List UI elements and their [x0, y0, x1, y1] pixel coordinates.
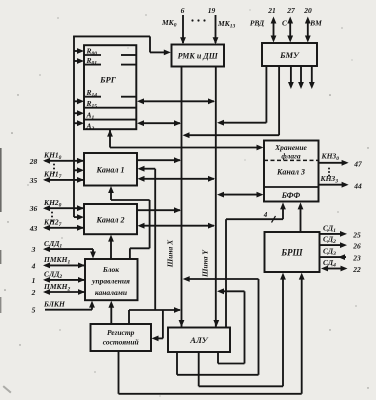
pin 23 СД3 input	[320, 247, 361, 263]
register row A1 label	[86, 111, 95, 122]
wire МК0 into РМК и ДШ	[180, 15, 186, 44]
svg-text:35: 35	[29, 176, 38, 185]
block Регистр состояний	[91, 324, 152, 351]
svg-text:21: 21	[267, 6, 276, 15]
wire Канал 3 to БРГ bottom	[107, 130, 263, 151]
svg-text:1: 1	[32, 276, 36, 285]
register row R14 divider	[84, 96, 136, 98]
svg-text:БФФ: БФФ	[281, 191, 301, 200]
svg-text:Блок: Блок	[102, 265, 119, 274]
label Шина X (rotated)	[166, 239, 175, 268]
svg-text:АЛУ: АЛУ	[189, 335, 209, 345]
wire Регистр состояний to БУК	[108, 301, 114, 324]
wire БМУ short output 1	[288, 66, 294, 89]
block БРШ (bus shaper)	[265, 232, 320, 272]
svg-text:23: 23	[352, 254, 361, 263]
wire stub into Канал 1 right edge	[138, 166, 156, 172]
block Хранение флага / Канал 3 / БФФ	[264, 141, 319, 202]
divider dashed between Хранение флага and Канал 3	[264, 159, 319, 161]
svg-text:6: 6	[181, 6, 185, 15]
wire bus elbow into Канал 2	[74, 214, 84, 220]
dots between МК0 and МК13	[191, 19, 205, 21]
pin 21 label	[267, 6, 276, 15]
wire БМУ short output 3	[309, 66, 315, 89]
svg-text:Шина X: Шина X	[166, 239, 175, 268]
bus Шина X vertical	[179, 66, 185, 327]
label МК0	[161, 18, 177, 29]
svg-text:БРГ: БРГ	[99, 75, 117, 85]
pin 3 СЛД1 output from БУК	[31, 239, 96, 259]
wire Канал 1 to Шина X	[137, 157, 181, 163]
dots between КН1 rows	[53, 164, 55, 174]
pin 4 ПМКН1 bidirectional	[31, 255, 85, 270]
svg-text:состояний: состояний	[103, 338, 139, 347]
wire net horizontal into Шина X	[129, 307, 181, 313]
svg-text:каналами: каналами	[95, 288, 127, 297]
wire БУК to Канал 1 routed	[108, 186, 150, 259]
wire БРГ A2 row to Шина X bidirectional	[137, 120, 181, 126]
label Шина Y (rotated)	[201, 249, 210, 278]
svg-text:25: 25	[352, 230, 361, 239]
svg-text:3: 3	[31, 245, 36, 254]
wire Канал 2 to Шина Y bidirectional	[138, 223, 216, 229]
pin 1 СЛД2 bidirectional	[32, 270, 85, 285]
svg-text:Канал 1: Канал 1	[96, 166, 125, 175]
svg-text:19: 19	[208, 6, 216, 15]
wire БМУ output to Шина X	[183, 66, 280, 138]
wire ВМ bidirectional to БМУ	[305, 17, 311, 43]
label РВД	[250, 19, 265, 28]
svg-text:4: 4	[263, 211, 268, 219]
svg-text:флага: флага	[281, 152, 301, 161]
wire АЛУ loop to Шина Y	[217, 288, 245, 363]
wire РВД bidirectional to БМУ	[271, 17, 277, 43]
wire БМУ output to Шина Y	[217, 66, 266, 126]
wire БФФ to Шина Y bidirectional	[217, 192, 264, 198]
pin 28 КН1_0 bidirectional into Канал 1	[29, 151, 84, 166]
block Блок управления каналами	[85, 259, 138, 300]
wire АЛУ loop to Шина X	[177, 276, 259, 375]
wire net branch down to Регистр top	[128, 310, 130, 324]
pin 35 КН1_7 bidirectional into Канал 1	[29, 170, 84, 185]
wire bus stub into БРГ row A1	[74, 110, 84, 116]
scan edge artifacts (decorative)	[0, 148, 12, 393]
register row R00 divider	[84, 54, 136, 56]
pin 22 СД4 bidirectional	[321, 258, 361, 274]
wire vertical net right of channels	[154, 169, 156, 310]
pin 25 СД1 output	[320, 224, 361, 240]
block Канал 2	[84, 204, 137, 234]
register row R01 divider	[84, 64, 136, 66]
svg-text:28: 28	[29, 157, 38, 166]
wire bus stub into БРГ row R15	[74, 98, 84, 104]
wire БРГ R15 row to Шина Y bidirectional	[137, 98, 215, 104]
svg-text:РМК и ДШ: РМК и ДШ	[178, 52, 219, 61]
wire МК13 into РМК и ДШ	[213, 15, 219, 44]
svg-text:36: 36	[29, 204, 38, 213]
svg-text:Шина Y: Шина Y	[201, 249, 210, 278]
wire bus stub into БРГ row R00	[74, 48, 84, 54]
svg-text:47: 47	[353, 159, 362, 168]
svg-text:4: 4	[31, 261, 36, 270]
svg-text:БЛКН: БЛКН	[43, 300, 66, 309]
block БМУ (microprogram control unit)	[262, 43, 317, 66]
wire БМУ short output 2	[298, 66, 304, 89]
bus width label 4	[263, 211, 276, 223]
wire bus stub into БРГ row R01	[74, 58, 84, 64]
pin 36 КН2_0 bidirectional into Канал 2	[29, 198, 84, 213]
register row R15 divider	[84, 107, 136, 109]
svg-text:44: 44	[353, 181, 362, 190]
block Канал 1	[84, 153, 137, 186]
svg-text:5: 5	[32, 306, 36, 315]
svg-text:26: 26	[352, 242, 361, 251]
pin 20 label	[303, 6, 312, 15]
register row A2 label	[86, 121, 95, 132]
wire bus stub into Канал 1	[74, 167, 84, 173]
svg-text:43: 43	[29, 224, 38, 233]
label ВМ	[309, 19, 322, 28]
divider between Канал 3 and БФФ	[264, 186, 319, 188]
pin 5 БЛКН into БУК	[32, 300, 95, 315]
wire bus stub into БРГ row A2	[74, 120, 84, 126]
wire Канал 2 to Шина X	[137, 207, 181, 213]
svg-text:Канал 3: Канал 3	[276, 168, 305, 177]
wire БУК to Канал 2	[108, 235, 114, 259]
pin 44 КНЗ_3 output	[319, 174, 363, 190]
register row R01 label	[86, 56, 98, 67]
svg-text:Регистр: Регистр	[107, 328, 135, 337]
label С	[282, 19, 288, 28]
svg-text:2: 2	[31, 288, 36, 297]
wire БРШ to БФФ	[298, 202, 304, 231]
block РМК и ДШ (microinstruction register and decoder)	[172, 45, 225, 67]
wire Регистр состояний loop to БРШ	[119, 273, 305, 394]
wire left distribution bus vertical	[73, 36, 75, 218]
bus Шина Y vertical	[213, 66, 219, 327]
register row A1 divider	[84, 119, 136, 121]
pin 43 КН2_7 bidirectional into Канал 2	[29, 218, 84, 233]
block АЛУ (ALU)	[168, 328, 230, 353]
pin 19 label	[208, 6, 216, 15]
label МК13	[217, 19, 236, 30]
dots between КНЗ rows	[328, 168, 330, 177]
pin 26 СД2 output	[320, 235, 361, 251]
svg-text:управления: управления	[91, 277, 130, 286]
dots between КН2 rows	[51, 212, 53, 222]
register row R00 label	[86, 47, 98, 58]
pin 6 label	[181, 6, 185, 15]
pin 47 КНЗ_0 output	[319, 152, 363, 169]
svg-text:ВМ: ВМ	[309, 19, 322, 28]
wire net branch into Регистр состояний right edge	[152, 310, 163, 341]
wire Канал 1 to Шина Y bidirectional	[138, 176, 216, 182]
register row R14 label	[86, 88, 98, 99]
wire АЛУ loop to БРШ	[199, 273, 286, 387]
wire АЛУ to БФФ	[226, 202, 286, 327]
svg-text:27: 27	[286, 6, 295, 15]
block БРГ (register file)	[84, 45, 136, 129]
svg-text:БРШ: БРШ	[280, 248, 303, 258]
svg-text:22: 22	[352, 265, 361, 274]
pin 27 label	[286, 6, 295, 15]
svg-text:РВД: РВД	[250, 19, 265, 28]
svg-text:БМУ: БМУ	[279, 50, 300, 60]
register row R15 label	[86, 99, 98, 110]
wire bus top link to РМК и ДШ	[73, 36, 171, 55]
wire С bidirectional to БМУ	[287, 17, 293, 43]
svg-text:Канал 2: Канал 2	[96, 216, 125, 225]
pin 2 ПМКН2 bidirectional	[31, 282, 85, 297]
svg-text:20: 20	[303, 6, 312, 15]
